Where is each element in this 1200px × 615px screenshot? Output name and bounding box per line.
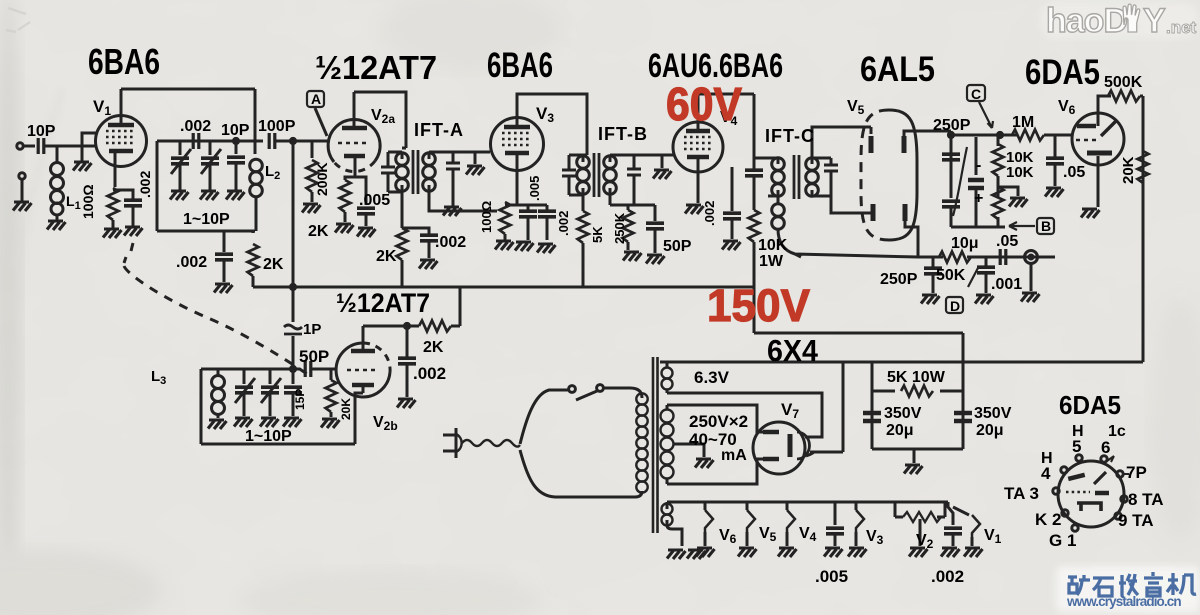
pointer from C	[979, 102, 993, 128]
svg-text:250P: 250P	[880, 271, 918, 288]
tube V6 envelope	[1072, 113, 1124, 165]
V5 diode plate bottom-left	[871, 204, 876, 221]
resistor 100ohm (V3 cathode)	[500, 202, 511, 234]
socket cathode bar	[1095, 491, 1109, 496]
svg-text:6DA5: 6DA5	[1059, 390, 1121, 420]
IFT-A primary coil	[396, 153, 409, 192]
tank bottom wire	[201, 443, 355, 446]
svg-text:.002: .002	[180, 118, 211, 135]
wire osc injection vertical	[292, 141, 295, 322]
tube V2a envelope (half dashed)	[328, 120, 380, 162]
IFT-A core	[413, 150, 418, 194]
ground	[124, 227, 143, 236]
capacitor .001	[985, 257, 988, 266]
B+ feed line upper	[754, 332, 963, 335]
V2a grid dashes	[338, 142, 370, 145]
hand glyph of logo	[1123, 4, 1140, 32]
pin 8	[1121, 496, 1127, 502]
socket plate bar	[1068, 475, 1084, 479]
ground	[103, 229, 122, 238]
AC plug	[443, 428, 456, 458]
heater tap V5	[746, 502, 749, 510]
ground	[214, 284, 233, 293]
svg-text:10K: 10K	[758, 237, 788, 254]
output jack	[1025, 251, 1038, 264]
svg-text:IFT-A: IFT-A	[414, 120, 464, 140]
boxed node B	[1037, 218, 1054, 234]
svg-text:50P: 50P	[663, 238, 692, 255]
pin 5	[1076, 455, 1082, 461]
wire cord to switch	[520, 390, 568, 444]
svg-text:7P: 7P	[1126, 463, 1147, 482]
svg-text:IFT-B: IFT-B	[598, 124, 648, 144]
V7 plate bar upper	[763, 430, 779, 435]
wire cord lower to primary	[520, 450, 642, 497]
V2b grid dashes	[347, 369, 379, 372]
Chinese char ji	[1167, 573, 1196, 595]
V3 plate lead and rail	[517, 94, 587, 155]
HV top lead to plate	[667, 405, 763, 432]
hum balance resistor (V2 heater)	[895, 502, 945, 517]
svg-text:2K: 2K	[263, 256, 284, 273]
capacitor (det filter 2)	[942, 201, 960, 207]
V4 cathode lead	[697, 157, 700, 203]
svg-text:.001: .001	[991, 276, 1022, 293]
ground terminal circle	[19, 173, 25, 179]
svg-text:Y: Y	[1143, 2, 1166, 40]
wire 2K to 150V rail	[252, 276, 255, 287]
capacitor 50P (osc grid)	[293, 368, 300, 371]
svg-text:150V: 150V	[707, 280, 810, 331]
svg-text:.002: .002	[556, 211, 571, 236]
boxed node C	[967, 85, 985, 101]
6.3V winding lower wire	[667, 392, 790, 395]
resistor 5K (screen dropper)	[582, 195, 585, 211]
IFT-C primary coil	[754, 158, 778, 164]
V2b plate lead	[362, 326, 365, 351]
svg-text:1~10P: 1~10P	[245, 428, 292, 445]
detector column caps	[950, 131, 953, 198]
IFT-A secondary capacitor	[429, 152, 453, 162]
V2a plate lead	[353, 92, 356, 128]
svg-text:20K: 20K	[339, 398, 353, 420]
IFT-B primary coil	[577, 156, 590, 195]
IFT-B secondary capacitor	[610, 155, 634, 168]
svg-text:100P: 100P	[258, 118, 296, 135]
capacitor 15P (osc pad)	[292, 369, 295, 384]
variable capacitor (osc gang)	[243, 369, 246, 384]
6DA5 socket circle	[1058, 461, 1124, 527]
IFT-B core	[594, 153, 599, 197]
oscillator tank top wire	[201, 368, 293, 371]
IFT-A secondary coil	[423, 153, 436, 192]
svg-text:6BA6: 6BA6	[487, 46, 553, 85]
IFT-A primary tuning capacitor	[387, 154, 390, 157]
V3 plate bar	[504, 125, 530, 130]
node junction osc grid	[290, 366, 295, 371]
IFT-C core	[794, 155, 799, 199]
heater tap V4	[786, 502, 789, 510]
resistor 2K (IFT-A decoupling)	[397, 228, 408, 260]
svg-text:50K: 50K	[936, 267, 966, 284]
V5 diode plate top-right	[902, 136, 907, 153]
V2b cathode bar	[352, 383, 374, 388]
svg-text:.05: .05	[1063, 164, 1085, 181]
IFT-B secondary coil	[604, 156, 617, 195]
150V B+ rail	[253, 286, 754, 289]
svg-text:10K: 10K	[1006, 164, 1034, 181]
variable capacitor trimmer (osc)	[269, 369, 272, 384]
electrolytic 10u	[975, 137, 978, 175]
wire cathode cluster	[505, 204, 547, 207]
capacitor .05 (V6 grid)	[1054, 135, 1057, 157]
pin 1	[1072, 525, 1078, 531]
antenna input terminal	[17, 143, 23, 149]
svg-text:G 1: G 1	[1049, 531, 1076, 550]
resistor 20K (osc grid leak)	[330, 369, 333, 380]
node junction rail-osc	[290, 284, 295, 289]
socket plate diagonal	[1094, 472, 1106, 484]
V3 cathode bar	[505, 151, 529, 156]
svg-text:IFT-C: IFT-C	[765, 126, 815, 146]
capacitor .005 (V2a cathode bypass)	[355, 177, 366, 205]
svg-text:.005: .005	[359, 192, 390, 209]
pin 3	[1053, 488, 1059, 494]
svg-text:20μ: 20μ	[886, 422, 914, 439]
filter right vertical	[962, 333, 965, 449]
wire IFT-A secondary to V3 grid	[429, 151, 490, 154]
IFT-C secondary capacitor	[812, 158, 831, 164]
resistor 1M	[1012, 130, 1044, 141]
right B+ vertical	[1142, 96, 1145, 362]
node junction	[233, 138, 238, 143]
ground under L1	[47, 221, 66, 230]
svg-text:.005: .005	[815, 567, 848, 586]
svg-text:350V: 350V	[884, 405, 922, 422]
V3 grid ground stub	[474, 152, 477, 164]
svg-text:D: D	[950, 298, 960, 314]
V7 cathode bar	[788, 434, 793, 457]
wire plate coupling line	[157, 140, 255, 143]
svg-text:A: A	[311, 91, 321, 107]
tank left edge	[200, 369, 203, 444]
svg-text:8 TA: 8 TA	[1128, 490, 1164, 509]
pin 6	[1101, 456, 1107, 462]
svg-text:.005: .005	[527, 176, 542, 201]
svg-text:.002: .002	[702, 201, 717, 226]
IFT-C tertiary coil	[777, 196, 780, 204]
svg-text:10P: 10P	[27, 123, 56, 140]
svg-text:500K: 500K	[1104, 74, 1143, 91]
transformer primary winding	[636, 393, 647, 492]
wire IFT-A primary bottom to 2K	[401, 192, 404, 228]
wire tank left edge	[156, 141, 159, 231]
V7 cathode lead to B+	[806, 452, 843, 456]
Chinese char shi	[1093, 578, 1114, 596]
svg-text:1c: 1c	[1108, 423, 1126, 440]
V2a cathode bar	[344, 154, 365, 159]
filter ground stub	[913, 449, 916, 463]
node junction	[997, 132, 1002, 137]
svg-text:20μ: 20μ	[976, 422, 1004, 439]
svg-text:2K: 2K	[423, 339, 444, 356]
Chinese char yin	[1144, 572, 1163, 596]
wire IFT-A secondary bottom (AVC)	[429, 192, 497, 211]
svg-text:.002: .002	[137, 171, 153, 198]
svg-text:6AL5: 6AL5	[860, 50, 935, 89]
V4 grid dots	[684, 137, 712, 149]
capacitor .002 (V4 screen bypass)	[731, 167, 734, 211]
boxed node A	[307, 91, 324, 107]
svg-text:6DA5: 6DA5	[1025, 53, 1100, 92]
logo haoDIY.net watermark	[1040, 2, 1198, 40]
wire plate rail corner down	[254, 89, 257, 141]
ground	[302, 204, 321, 213]
wire secondary bottom to diode	[831, 196, 873, 213]
capacitor .002 (AVC bypass)	[223, 231, 226, 252]
wire B+ to output stage	[963, 361, 1143, 364]
filter left vertical	[871, 362, 874, 449]
svg-text:250P: 250P	[933, 117, 971, 134]
transformer core	[653, 357, 658, 533]
heater tap V3	[855, 502, 858, 510]
svg-text:1~10P: 1~10P	[183, 211, 230, 228]
HV center tap	[673, 444, 704, 457]
V4 plate bar	[686, 129, 710, 134]
capacitor .002 (osc plate)	[406, 326, 409, 357]
HV secondary winding	[661, 410, 674, 479]
V1 cathode lead	[114, 151, 117, 187]
svg-text:1P: 1P	[303, 321, 321, 338]
V1 top rail wire	[121, 88, 255, 91]
svg-text:6.3V: 6.3V	[694, 368, 730, 387]
6.3V rectifier heater winding	[662, 368, 673, 390]
svg-text:200K: 200K	[314, 163, 330, 196]
tube V7 envelope	[753, 422, 805, 474]
svg-text:350V: 350V	[974, 405, 1012, 422]
IFT-C secondary coil	[806, 158, 819, 197]
svg-text:250V×2: 250V×2	[689, 412, 748, 431]
svg-text:250K: 250K	[612, 212, 627, 244]
electrolytic 350V 20u left	[863, 413, 881, 421]
svg-text:1W: 1W	[759, 253, 784, 270]
svg-text:4: 4	[1041, 464, 1051, 483]
socket grid dots	[1066, 491, 1090, 493]
wire bottom-right diode down	[905, 221, 918, 257]
wire IFT-B to V4 grid	[634, 154, 673, 157]
svg-text:.05: .05	[996, 233, 1018, 250]
svg-text:.002: .002	[931, 567, 964, 586]
V6 cathode lead	[1097, 156, 1100, 207]
wire 2K to rail	[459, 287, 462, 326]
svg-text:5K: 5K	[590, 226, 605, 243]
V3 grid dots	[502, 133, 532, 145]
capacitor .005 (heater bypass)	[834, 502, 837, 525]
pin 9	[1115, 513, 1121, 519]
V2a cathode lead	[354, 156, 357, 177]
heater bus wire	[672, 501, 948, 504]
filter bottom wire	[872, 448, 963, 451]
V1 screen stub to ground	[82, 133, 98, 161]
V5 diode plate top-left	[869, 136, 874, 153]
node junction (osc injection)	[290, 138, 295, 143]
svg-text:B: B	[1041, 218, 1051, 234]
svg-text:15P: 15P	[293, 389, 307, 410]
pin 4	[1061, 467, 1067, 473]
pointer from B	[1009, 222, 1035, 230]
V1 plate bar	[108, 123, 134, 128]
ground	[13, 202, 32, 211]
heater tap V6	[704, 502, 707, 510]
V1 plate lead	[120, 89, 123, 125]
V6 plate diagonal	[1101, 120, 1117, 136]
wire top-right diode to detector	[904, 131, 951, 136]
svg-text:2K: 2K	[308, 223, 329, 240]
V2a plate bar	[342, 126, 367, 131]
resistor 500K	[1108, 91, 1140, 102]
V2a plate rail to IFT-A	[354, 92, 406, 148]
svg-text:6X4: 6X4	[767, 333, 819, 368]
gang arrow curve	[953, 147, 967, 216]
heater tap V1	[953, 507, 969, 515]
coil L2	[254, 141, 257, 154]
capacitor 250P (det filter 1)	[932, 257, 935, 267]
capacitor .002 (V1 cathode bypass)	[124, 200, 142, 206]
svg-text:mA: mA	[721, 447, 747, 464]
tube V3 envelope	[491, 118, 544, 171]
wire	[23, 145, 35, 148]
boxed node D	[946, 297, 963, 313]
wire secondary top to V5	[812, 127, 871, 158]
svg-text:C: C	[971, 86, 981, 102]
crystalradio watermark	[1056, 566, 1200, 612]
svg-text:100Ω: 100Ω	[80, 184, 96, 219]
wire grid	[1072, 134, 1073, 137]
heater rail top (to 6X4)	[660, 361, 963, 364]
V6 grid dashes	[1076, 139, 1096, 142]
resistor 2K (V2a cathode)	[340, 180, 351, 212]
svg-text:.002: .002	[413, 364, 446, 383]
svg-text:100Ω: 100Ω	[479, 201, 494, 233]
V7 heater box	[790, 393, 822, 437]
V5 diode plate bottom-right	[903, 204, 908, 221]
resistor 2K (L2 return)	[252, 231, 255, 233]
capacitor 50P (AVC filter)	[654, 205, 657, 221]
node junction	[404, 323, 409, 328]
AC cord squiggle	[462, 440, 520, 447]
resistor 10K upper	[997, 135, 1000, 146]
coil L3	[217, 369, 220, 376]
V1 grid dots	[106, 131, 136, 143]
capacitor 250P (IF filter)	[942, 154, 960, 160]
V6 plate bar	[1077, 124, 1096, 129]
tube V4 envelope	[673, 122, 723, 172]
resistor 50K (volume pot)	[939, 252, 971, 263]
electrolytic 350V 20u right	[954, 413, 972, 421]
svg-text:½12AT7: ½12AT7	[315, 49, 437, 86]
capacitor 1P	[284, 325, 302, 334]
svg-text:9 TA: 9 TA	[1118, 511, 1154, 530]
tube V2b envelope (half dashed)	[336, 343, 390, 397]
svg-text:50P: 50P	[299, 347, 329, 366]
V7 plate bar lower	[763, 457, 779, 462]
capacitor 10P (padder)	[235, 141, 238, 154]
V6 plate lead to 500K	[1098, 96, 1111, 126]
svg-text:.002: .002	[176, 254, 207, 271]
svg-text:K 2: K 2	[1035, 510, 1061, 529]
svg-text:60V: 60V	[666, 78, 742, 130]
svg-text:5: 5	[1072, 437, 1081, 456]
tube V1 envelope	[96, 116, 147, 167]
capacitor 10P (antenna series)	[38, 138, 44, 154]
svg-text:+: +	[974, 190, 983, 207]
resistor 10K 1W	[749, 210, 760, 242]
svg-text:10μ: 10μ	[951, 235, 979, 252]
capacitor .002 (series)	[193, 133, 199, 149]
coil L1	[56, 146, 59, 162]
heater winding bottom	[662, 504, 673, 526]
variable capacitor (tuning gang 1)	[179, 141, 182, 155]
wire cathode to bypass cap	[113, 190, 133, 200]
variable capacitor trimmer 1~10P	[209, 141, 212, 155]
resistor 20K	[1138, 151, 1149, 183]
HV bottom lead to plate	[667, 459, 763, 484]
Chinese char kuang	[1068, 575, 1090, 595]
pin 7	[1117, 471, 1123, 477]
wire antenna cap to V1 grid	[44, 145, 96, 148]
dashed gang coupling line	[124, 243, 307, 374]
V3 cathode lead	[516, 153, 519, 205]
V2b plate bar	[351, 349, 375, 354]
capacitor (IFT-C primary bypass)	[745, 170, 763, 176]
pointer line from A to grid	[315, 108, 327, 136]
svg-text:.net: .net	[1166, 18, 1197, 37]
resistor 250K (AVC)	[627, 205, 630, 210]
capacitor .002 (screen bypass)	[402, 228, 429, 234]
pin 2	[1062, 510, 1068, 516]
main B+ vertical (V4 plate feed)	[753, 94, 756, 169]
svg-text:2K: 2K	[376, 248, 397, 265]
svg-text:6: 6	[1101, 438, 1110, 457]
svg-text:20K: 20K	[1120, 156, 1137, 184]
svg-text:½12AT7: ½12AT7	[336, 288, 430, 318]
resistor 200K (V2a grid)	[311, 141, 314, 158]
power switch	[569, 386, 576, 393]
wire switch to primary	[603, 388, 642, 398]
V1 cathode bar	[109, 149, 133, 154]
capacitor .005 (V3 cathode)	[527, 205, 530, 211]
svg-text:6BA6: 6BA6	[88, 41, 160, 82]
V4 plate lead and rail	[698, 94, 754, 131]
svg-text:10P: 10P	[221, 122, 250, 139]
socket bottom bracket	[1077, 503, 1101, 511]
V4 cathode bar	[687, 155, 709, 160]
wire cathode to tank	[355, 385, 363, 444]
wire plate to 2K	[363, 325, 419, 328]
svg-text:.002: .002	[435, 234, 466, 251]
capacitor .002 (V3)	[546, 205, 549, 211]
svg-text:TA 3: TA 3	[1004, 484, 1039, 503]
capacitor 100P (coupling)	[255, 140, 263, 143]
tube V5 (6AL5) envelope	[861, 110, 889, 240]
svg-text:5K 10W: 5K 10W	[887, 369, 946, 386]
V7 heater arc	[797, 432, 809, 459]
resistor 5K 10W line	[872, 390, 963, 393]
svg-text:-: -	[976, 157, 981, 174]
wire	[21, 179, 24, 202]
svg-text:haoD: haoD	[1046, 2, 1127, 40]
wire main AF line	[951, 134, 1018, 137]
